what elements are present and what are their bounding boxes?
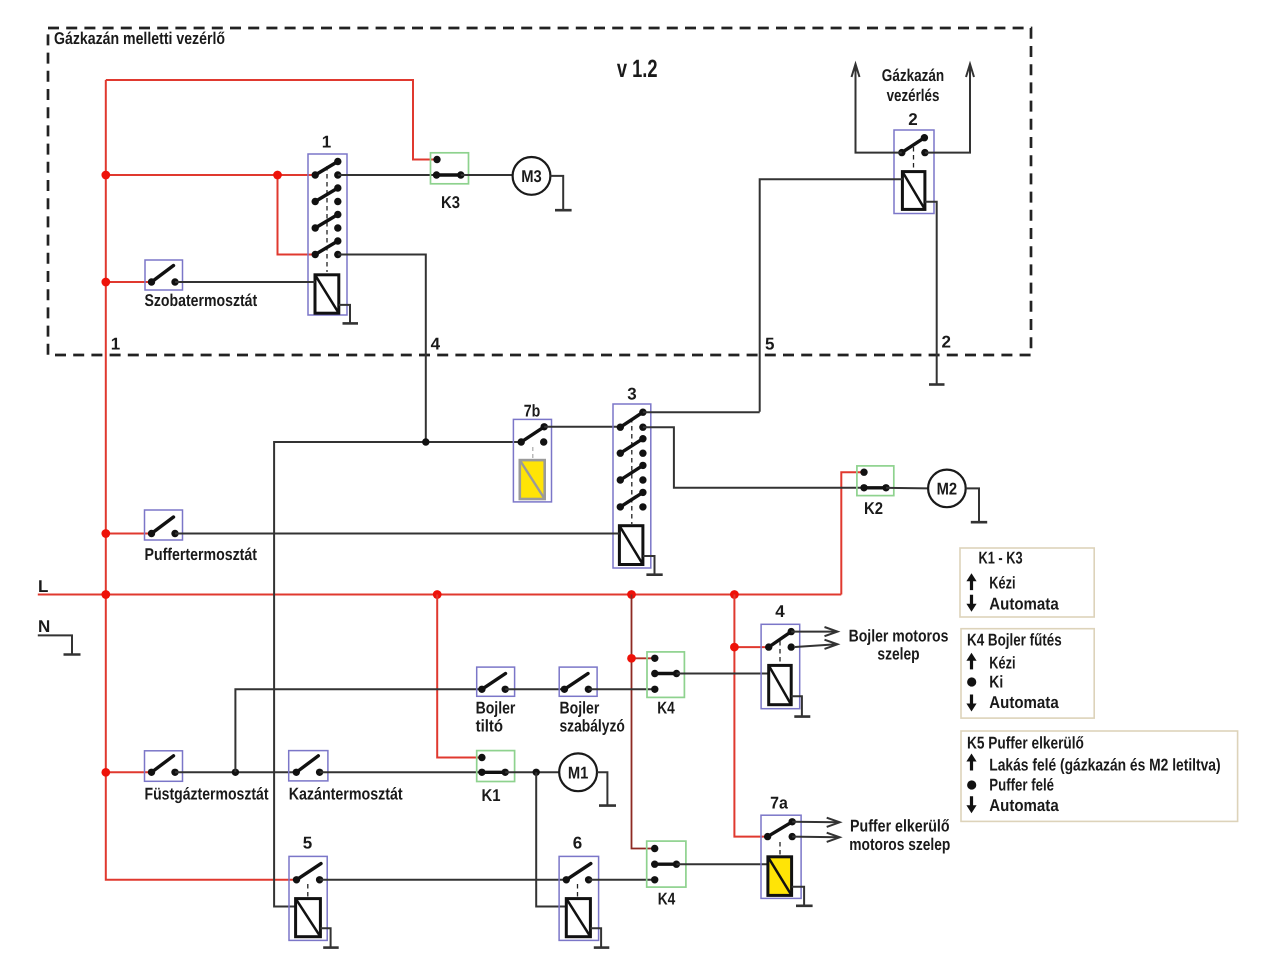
motor M1 [559, 753, 597, 791]
wire: M1 branch down to relay 6 coil [536, 772, 566, 906]
svg-text:1: 1 [322, 133, 331, 152]
svg-text:5: 5 [765, 335, 774, 354]
switch Bojler tiltó [476, 667, 516, 735]
svg-text:Ki: Ki [989, 673, 1003, 692]
wire: Kazántermosztát to K1 [320, 771, 482, 773]
label 5 on enclosure border [765, 335, 774, 354]
switch K1 (2-position) [477, 751, 515, 805]
switch K4 upper (3-position) [647, 652, 684, 718]
svg-text:M2: M2 [937, 480, 958, 499]
svg-text:K3: K3 [441, 193, 460, 212]
label 4 on enclosure border [431, 335, 441, 354]
svg-text:Szobatermosztát: Szobatermosztát [145, 291, 258, 310]
junction dot boiler-row branch [232, 769, 239, 776]
wire: red branch relay 1 pole 4 [278, 175, 316, 255]
switch K3 (2-position) [431, 153, 469, 212]
svg-text:Gázkazán: Gázkazán [882, 66, 944, 85]
svg-text:L: L [38, 577, 48, 596]
svg-text:K4: K4 [658, 890, 676, 909]
ground wire 2 [929, 383, 945, 386]
svg-text:M1: M1 [568, 763, 589, 782]
wire: Füstgáztermosztát to Kazántermosztát [175, 771, 296, 773]
junction dot node 4 [422, 438, 429, 445]
junction red dot L at K1 drop [433, 590, 442, 599]
svg-text:motoros szelep: motoros szelep [849, 835, 950, 854]
motor M3 [513, 157, 551, 195]
wire: red branch to Puffertermosztát [106, 533, 152, 535]
svg-text:Kazántermosztát: Kazántermosztát [289, 785, 403, 804]
label v 1.2 [617, 55, 658, 83]
svg-text:K4 Bojler fűtés: K4 Bojler fűtés [967, 631, 1062, 650]
junction dot M1 branch [533, 769, 540, 776]
wire 4: relay 1 pole 4 down to node [338, 255, 426, 443]
wire: relay 3 pole1 NO contact to wire 5 riser [643, 411, 760, 413]
label Puffer elkerülő motoros szelep [849, 817, 950, 855]
ground relay 3 coil [643, 556, 663, 575]
node N : neutral stub [38, 617, 81, 655]
thermostat switch Puffertermosztát [145, 510, 258, 564]
wire: red branch to K4 upper top [632, 657, 655, 659]
label 2 on enclosure border [942, 333, 951, 352]
svg-text:tiltó: tiltó [476, 717, 503, 736]
wire: relay 2 right contact to up arrow [925, 64, 974, 153]
svg-text:Bojler motoros: Bojler motoros [849, 627, 949, 646]
junction red dot relay4 branch [730, 643, 739, 652]
ground relay 4 coil [791, 696, 810, 716]
svg-text:Lakás felé (gázkazán és M2 let: Lakás felé (gázkazán és M2 letiltva) [989, 756, 1220, 775]
wire 2: relay 2 coil output to ground below enclosure [925, 202, 937, 385]
svg-text:K1 - K3: K1 - K3 [979, 549, 1023, 568]
wire: Bojler szabályzó to K4 upper [588, 688, 654, 690]
wire: relay 3 pole1 NC contact to K2 [643, 427, 864, 488]
wire: node 4 to relay 7b and down-feeder to relay 5 coil [274, 442, 521, 907]
wire: top red branch to K3 [106, 80, 437, 160]
ground M2 [966, 488, 988, 522]
ground relay 6 coil [590, 928, 609, 947]
svg-text:3: 3 [627, 385, 636, 404]
svg-text:Automata: Automata [989, 693, 1059, 712]
arrow: relay 4 output to Bojler motoros szelep [791, 627, 837, 636]
svg-text:M3: M3 [521, 167, 542, 186]
arrow: relay 7a output to Puffer elkerülő szelep [792, 818, 840, 827]
svg-text:K4: K4 [657, 699, 675, 718]
wire: K4 upper to relay 4 coil [677, 673, 769, 675]
svg-text:szelep: szelep [877, 645, 919, 664]
wire: red branch to relay 4 pole [734, 646, 768, 648]
svg-text:Bojler: Bojler [560, 698, 600, 717]
switch Bojler szabályzó [559, 667, 625, 735]
relay 7b (aux pole of K5, ghost coil) [513, 402, 551, 502]
wire: K4 lower to relay 7a coil [676, 863, 768, 865]
thermostat switch Füstgáztermosztát [145, 751, 269, 804]
svg-text:K2: K2 [864, 499, 883, 518]
wire: red drop L to K1 [437, 595, 482, 758]
enclosure dashed box: Gázkazán melletti vezérlő [48, 28, 1031, 355]
legend box K5 Puffer elkerülő [961, 731, 1238, 821]
svg-text:N: N [38, 617, 50, 636]
wire: Szobatermosztát to relay 1 coil [175, 281, 315, 283]
ground M1 [597, 772, 616, 805]
legend box K1 - K3 [960, 548, 1094, 617]
thermostat switch Szobatermosztát [145, 260, 258, 310]
svg-text:1: 1 [111, 335, 120, 354]
svg-text:Füstgáztermosztát: Füstgáztermosztát [145, 785, 269, 804]
svg-text:7b: 7b [524, 402, 541, 421]
label Gázkazán vezérlés [882, 66, 944, 105]
svg-text:K5 Puffer elkerülő: K5 Puffer elkerülő [967, 734, 1084, 753]
wire: 7b to relay 3 pole 1 [544, 426, 620, 428]
svg-text:2: 2 [942, 333, 951, 352]
svg-text:Automata: Automata [989, 796, 1059, 815]
switch K4 lower (3-position) [647, 841, 686, 908]
wire 5: relay 2 coil feed from relay 3 contact [760, 179, 903, 412]
svg-text:Kézi: Kézi [989, 654, 1015, 673]
wire: red riser L to K2 [841, 472, 864, 594]
svg-text:szabályzó: szabályzó [560, 717, 625, 736]
wire: red drop L to relay 4 and relay 7a [734, 595, 767, 837]
svg-text:Kézi: Kézi [989, 574, 1015, 593]
wire: relay 2 left contact to up arrow [852, 64, 902, 153]
junction red dot Füstgáztermosztát [101, 768, 110, 777]
relay 6 (with coil) [559, 834, 599, 941]
svg-text:Bojler: Bojler [476, 698, 516, 717]
wire: relay 5 to relay 6 [320, 879, 567, 881]
svg-text:4: 4 [431, 335, 441, 354]
wire: K2 to M2 [886, 487, 928, 490]
svg-text:K1: K1 [482, 786, 501, 805]
relay 2 (single changeover with coil) [894, 110, 934, 214]
thermostat switch Kazántermosztát [289, 751, 403, 804]
svg-text:6: 6 [573, 834, 582, 853]
junction red dot L at K4-upper drop [627, 590, 636, 599]
relay 4 (boiler valve relay) [761, 602, 800, 709]
ground relay 5 coil [320, 928, 338, 947]
wire: red branch to relay 1 pole 1 [106, 174, 315, 176]
relay 7a (K5 bypass relay, yellow coil) [761, 794, 801, 899]
wire: red branch to Szobatermosztát [106, 281, 152, 283]
svg-text:Puffertermosztát: Puffertermosztát [145, 545, 258, 564]
ground relay 1 coil [339, 305, 358, 324]
legend box K4 Bojler fűtés [961, 629, 1094, 718]
relay 5 (with coil) [289, 834, 327, 941]
svg-text:Puffer elkerülő: Puffer elkerülő [850, 817, 950, 836]
node L : phase rail [38, 577, 842, 596]
svg-text:v 1.2: v 1.2 [617, 55, 658, 83]
junction red dot Puffertermosztát [101, 529, 110, 538]
svg-text:Gázkazán melletti vezérlő: Gázkazán melletti vezérlő [54, 29, 225, 48]
svg-text:5: 5 [303, 834, 312, 853]
label Bojler motoros szelep [849, 627, 949, 664]
ground relay 7a coil [792, 887, 813, 906]
svg-text:Automata: Automata [989, 595, 1059, 614]
switch K2 (2-position) [857, 466, 894, 518]
svg-text:7a: 7a [770, 794, 788, 813]
junction red dot L at relay4 drop [730, 590, 739, 599]
svg-text:vezérlés: vezérlés [887, 86, 940, 105]
junction red dot feeder at relay1 row [101, 171, 110, 180]
label 1 on enclosure border [111, 335, 120, 354]
arrow: relay 7a second output [792, 833, 840, 842]
motor M2 [928, 470, 966, 508]
svg-text:Puffer felé: Puffer felé [989, 776, 1054, 795]
wire: K3 to M3 [461, 174, 513, 176]
junction red dot relay1 branch [273, 171, 282, 180]
wire: Bojler tiltó to Bojler szabályzó [505, 688, 564, 690]
arrow: relay 4 second output [795, 640, 838, 649]
wire: red branch to Füstgáztermosztát [106, 771, 152, 773]
ground M3 [550, 176, 571, 210]
junction red dot Szobatermosztát [101, 278, 110, 287]
junction red dot L at feeder [101, 590, 110, 599]
wire: red drop L to K4 upper and K4 lower [632, 595, 655, 849]
wire: branch up to Bojler tiltó row [235, 689, 482, 772]
svg-text:2: 2 [908, 110, 917, 129]
wire: relay 6 to K4 lower [589, 879, 655, 881]
relay 3 (4-pole changeover with coil) [613, 385, 651, 569]
wire: relay 1 to K3 [338, 174, 437, 176]
svg-text:4: 4 [775, 602, 785, 621]
relay 1 (4-pole changeover with coil) [308, 133, 347, 316]
wire: Puffertermosztát to relay 3 coil [175, 533, 619, 535]
wire: K1 to M1 [505, 771, 559, 773]
wire: left red feeder vertical L-rail [106, 80, 297, 880]
junction red dot K4 upper branch [627, 654, 636, 663]
